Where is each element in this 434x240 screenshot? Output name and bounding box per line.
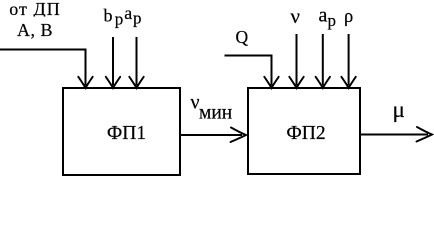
svg-text:ФП1: ФП1 <box>107 123 146 144</box>
svg-text:ФП2: ФП2 <box>286 123 325 144</box>
svg-text:р: р <box>115 10 124 29</box>
svg-text:ρ: ρ <box>344 7 353 27</box>
svg-text:от ДП: от ДП <box>9 0 60 19</box>
svg-text:μ: μ <box>393 97 405 122</box>
svg-text:a: a <box>319 4 328 26</box>
svg-text:мин: мин <box>199 103 232 124</box>
svg-text:a: a <box>124 3 132 23</box>
svg-text:b: b <box>104 5 113 25</box>
svg-text:ν: ν <box>291 4 301 28</box>
svg-text:А, В: А, В <box>17 20 53 40</box>
svg-text:p: p <box>133 8 142 27</box>
svg-text:Q: Q <box>236 27 249 47</box>
svg-text:p: p <box>328 11 337 30</box>
